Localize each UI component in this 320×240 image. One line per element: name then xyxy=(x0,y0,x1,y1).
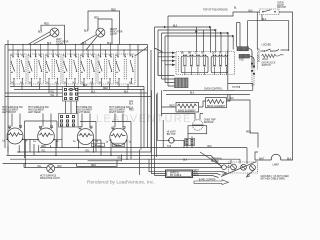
wire broil lead xyxy=(203,94,230,107)
oven light switch dashed box xyxy=(260,9,279,15)
surface switch box 1 xyxy=(11,54,27,84)
wire left vertical bus xyxy=(5,40,8,152)
label hot surface switch right front xyxy=(109,106,130,114)
wire nested loops right xyxy=(197,27,234,53)
wire bottom middle verticals xyxy=(140,150,155,176)
wire second loop below xyxy=(248,21,289,51)
svg-text:YEL: YEL xyxy=(37,166,42,168)
surface element left front xyxy=(2,126,28,145)
door lock locked contact xyxy=(260,44,279,51)
svg-text:BLK: BLK xyxy=(38,32,43,34)
svg-text:Rendered by LeadVenture, Inc.: Rendered by LeadVenture, Inc. xyxy=(87,180,155,186)
oven temp sensor xyxy=(192,120,216,131)
svg-text:RED: RED xyxy=(246,131,251,133)
terminal screws xyxy=(231,164,256,170)
door lock unlock resistor xyxy=(262,54,281,61)
wire mid row right xyxy=(64,45,144,150)
svg-text:RED: RED xyxy=(44,24,49,26)
relay box A xyxy=(181,55,208,76)
svg-text:BK: BK xyxy=(181,53,185,55)
svg-text:INDICATOR LIGHT: INDICATOR LIGHT xyxy=(40,177,60,180)
svg-text:BLK: BLK xyxy=(230,98,235,100)
svg-text:RED: RED xyxy=(194,175,199,177)
label box RED xyxy=(113,143,125,146)
svg-text:BLK: BLK xyxy=(249,10,254,12)
small arrowheads xyxy=(223,172,227,175)
svg-text:BX CABLE: BX CABLE xyxy=(170,174,182,177)
right box corner TU/TO8 xyxy=(228,50,253,91)
sensor bracket xyxy=(188,126,207,134)
lamp xyxy=(255,154,293,166)
dotted vertical in box xyxy=(178,56,180,73)
svg-text:WHT: WHT xyxy=(259,159,265,161)
svg-text:BLK: BLK xyxy=(262,19,267,21)
wire under switch row xyxy=(5,87,63,97)
wire TB1-TB2 links xyxy=(66,101,77,114)
svg-text:BLK: BLK xyxy=(124,92,129,94)
wire element links xyxy=(23,139,101,144)
surface element right rear xyxy=(73,126,99,145)
svg-text:TU/TO8: TU/TO8 xyxy=(232,87,241,89)
terminal screws dashed box xyxy=(229,162,258,173)
svg-text:LEFT FRONT: LEFT FRONT xyxy=(2,112,17,114)
wire from oven light switch down right edge xyxy=(262,12,293,160)
wire top of tub ground xyxy=(168,12,260,16)
svg-text:TOD: TOD xyxy=(239,59,244,61)
wire sensor leads xyxy=(162,114,204,120)
svg-text:LIGHT: LIGHT xyxy=(56,44,63,46)
svg-text:BLK: BLK xyxy=(287,159,292,161)
junction triangles left of control box xyxy=(172,52,176,67)
svg-text:BR: BR xyxy=(188,53,192,55)
indicator light left xyxy=(50,28,59,37)
surface element left rear xyxy=(33,126,59,145)
svg-text:DOOR LOCK: DOOR LOCK xyxy=(259,48,261,62)
svg-text:YEL: YEL xyxy=(50,95,55,97)
wire diagonal box7 to spine xyxy=(135,47,148,56)
wire lamp drop xyxy=(255,152,258,160)
svg-text:YEL: YEL xyxy=(94,145,99,147)
indicator light right xyxy=(96,28,105,37)
broil element xyxy=(206,98,227,109)
wire connector drops xyxy=(187,136,192,147)
wire left indicator loop RED xyxy=(41,25,65,44)
svg-text:LOCKED: LOCKED xyxy=(262,44,272,46)
svg-text:WITH BX CABLE WIRE: WITH BX CABLE WIRE xyxy=(261,177,286,180)
svg-text:BLK: BLK xyxy=(183,160,188,162)
wire top bus BLK xyxy=(5,45,148,51)
relay box B xyxy=(211,55,228,76)
wire node to screw xyxy=(226,148,247,167)
oven selector outer dashed box xyxy=(176,52,235,75)
wire TOD hooks xyxy=(249,49,255,69)
wire indicator line xyxy=(24,167,222,169)
svg-text:LEFT REAR: LEFT REAR xyxy=(28,111,41,114)
svg-text:TOP OF TUB GROUND: TOP OF TUB GROUND xyxy=(203,9,228,11)
wire mid bottom link xyxy=(77,160,118,166)
BX cable box xyxy=(166,170,193,178)
surface switch box 6 xyxy=(98,54,114,84)
svg-text:RED: RED xyxy=(94,18,99,20)
terminal block TB1 xyxy=(63,87,79,102)
svg-text:YEL: YEL xyxy=(85,151,90,153)
svg-text:BLK: BLK xyxy=(58,166,63,168)
svg-text:BR-TOP: BR-TOP xyxy=(167,134,176,136)
svg-text:BLK: BLK xyxy=(91,92,96,94)
wire top right supply lines xyxy=(155,27,234,53)
terminal block TB2 xyxy=(59,114,79,128)
svg-text:SWITCH: SWITCH xyxy=(277,7,286,9)
connector pins dotted xyxy=(252,53,258,87)
svg-text:BLK: BLK xyxy=(190,93,195,95)
wire bake leads xyxy=(162,106,204,108)
wire bottom bus lines xyxy=(40,147,247,149)
junction dots on bus xyxy=(12,44,130,51)
wire diagonal to screws xyxy=(221,162,257,177)
surface switch box 4 xyxy=(63,54,79,84)
node circle xyxy=(222,165,227,170)
wire burner drops xyxy=(8,140,127,168)
wire locked arrow to loop xyxy=(281,50,289,55)
pin marks xyxy=(251,63,255,75)
label hot surface switch left rear xyxy=(28,106,49,114)
wire from boxes to underrow xyxy=(14,84,128,97)
hi-limit disc xyxy=(157,138,184,144)
wire bus bends into control bottom xyxy=(158,76,175,87)
wire step segment xyxy=(88,154,122,160)
wire diagonals into node xyxy=(200,152,222,167)
ground arrow xyxy=(247,170,255,178)
wire diagonal to right indicator xyxy=(80,35,97,51)
junction marks on supply lines xyxy=(164,26,234,37)
svg-text:RIGHT REAR: RIGHT REAR xyxy=(76,111,90,114)
surface element right front xyxy=(106,127,132,146)
bake element xyxy=(176,103,199,113)
TOD coil block xyxy=(237,47,249,51)
wire diagonal to left indicator xyxy=(28,32,51,45)
svg-text:YEL: YEL xyxy=(41,151,46,153)
surface switch box 3 xyxy=(46,54,62,84)
svg-text:BLK: BLK xyxy=(84,31,89,33)
surface switch box 2 xyxy=(28,54,44,84)
label box YEL xyxy=(92,143,105,146)
sensor connector block xyxy=(185,138,195,145)
svg-text:BAKE ELEMENT: BAKE ELEMENT xyxy=(178,110,196,113)
junction dots bottom xyxy=(19,147,128,164)
svg-text:SENSOR: SENSOR xyxy=(204,122,214,124)
wire left spine drops xyxy=(152,90,162,157)
wire right indicator inner loop RED xyxy=(98,19,112,45)
svg-text:BLK: BLK xyxy=(107,43,112,45)
second coil block xyxy=(239,54,250,58)
hot surface indicator light xyxy=(47,165,55,173)
wire right mid RED drop xyxy=(228,94,258,147)
wire right verticals drop xyxy=(237,12,258,50)
svg-text:YEL: YEL xyxy=(98,146,103,148)
label hot surface switch left front xyxy=(2,106,23,114)
svg-text:BLK: BLK xyxy=(173,25,178,27)
wire right of TB1 xyxy=(78,93,151,97)
svg-text:YEL: YEL xyxy=(50,92,55,94)
svg-text:BLK: BLK xyxy=(129,103,134,105)
surface switch box 5 xyxy=(81,54,97,84)
svg-text:LIGHT: LIGHT xyxy=(110,34,117,36)
svg-text:UNLK: UNLK xyxy=(262,59,269,61)
svg-text:LAMP: LAMP xyxy=(273,164,280,167)
wire diagonals into control xyxy=(155,48,173,76)
svg-text:SWITCH: SWITCH xyxy=(262,65,271,67)
bare copper hollow arrow xyxy=(194,180,229,185)
svg-text:RED: RED xyxy=(41,146,46,148)
svg-text:BROIL ELEMENT: BROIL ELEMENT xyxy=(207,106,226,108)
wire burner feeds from text row xyxy=(12,114,123,128)
svg-text:RED: RED xyxy=(111,10,116,12)
wire hi-limit corners xyxy=(157,93,184,148)
wire middle vertical bundle xyxy=(148,16,169,156)
wire bx leads right xyxy=(193,171,224,177)
surface switch box 7 wide xyxy=(116,54,136,84)
oven control hatched block xyxy=(174,78,188,88)
svg-text:OVEN CONTROL: OVEN CONTROL xyxy=(204,88,223,90)
svg-text:RED: RED xyxy=(115,145,120,147)
wire oven control lines xyxy=(163,90,250,94)
label hot surface switch right rear xyxy=(76,107,93,114)
wire bx leads left xyxy=(155,172,166,176)
svg-text:RED: RED xyxy=(129,110,134,112)
wire right indicator outer loop RED xyxy=(88,11,120,45)
wire stubs bus to switch boxes xyxy=(13,45,130,57)
wire loops around elements xyxy=(25,121,132,159)
